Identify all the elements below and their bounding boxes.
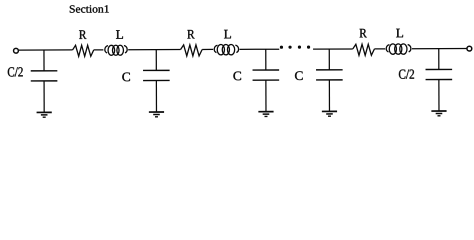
label R (R1) — [79, 30, 86, 39]
inductor L3 — [386, 44, 411, 54]
label R (R3) — [360, 29, 367, 38]
wire L2 through node 3 to break — [240, 48, 280, 50]
capacitor C4 (C) — [316, 49, 343, 80]
wire R2 to L2 — [202, 48, 213, 50]
resistor R3 — [353, 44, 375, 55]
ground (below C1) — [37, 112, 52, 117]
ellipsis dots (continuation) — [280, 45, 310, 48]
wire C4 to ground — [328, 80, 330, 111]
ground (below C3) — [258, 112, 273, 117]
capacitor C3 (C) — [252, 49, 279, 80]
wire from T1 through node 1 to R1 — [19, 49, 73, 51]
capacitor C2 (C) — [143, 50, 170, 81]
wire C3 to ground — [265, 80, 267, 111]
label L (L3) — [396, 29, 403, 38]
label L (L1) — [116, 30, 123, 39]
terminal T1 (left port) — [14, 48, 19, 53]
wire from break through node 4 to R3 — [313, 48, 353, 50]
resistor R1 — [73, 45, 94, 56]
label C (C3) — [233, 72, 241, 81]
ground (below C4) — [322, 111, 337, 116]
ground (below C5) — [431, 111, 446, 116]
wire C1 to ground — [43, 81, 45, 112]
wire L1 through node 2 to R2 — [128, 49, 180, 51]
label C/2 (C1) — [8, 67, 23, 76]
label R (R2) — [187, 30, 194, 39]
label L (L2) — [224, 30, 231, 39]
inductor L2 — [214, 44, 238, 54]
inductor L1 — [105, 45, 127, 55]
capacitor C5 (C/2) — [425, 49, 452, 80]
label C (C4) — [295, 71, 303, 80]
terminal T2 (right port) — [467, 46, 472, 51]
ground (below C2) — [149, 112, 164, 117]
wire C2 to ground — [155, 81, 157, 112]
label Section1 — [70, 5, 109, 13]
resistor R2 — [181, 45, 203, 56]
wire C5 to ground — [438, 80, 440, 111]
wire R1 to L1 — [94, 49, 104, 51]
label C/2 (C5) — [399, 69, 414, 78]
label C (C2) — [122, 73, 130, 82]
capacitor C1 (C/2) — [31, 50, 58, 81]
wire R3 to L3 — [374, 48, 385, 50]
wire L3 through node 5 to T2 — [412, 48, 467, 50]
